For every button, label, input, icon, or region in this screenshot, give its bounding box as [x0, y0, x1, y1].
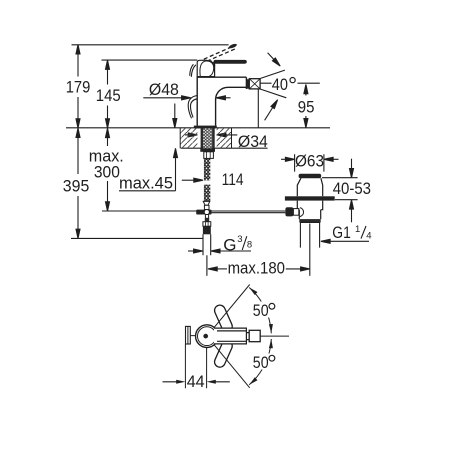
- flexible supply hose lower: [204, 185, 210, 202]
- top view handle lower position: [213, 339, 234, 369]
- reference line bottom of supply (max300 bottom) / pop-up rod upper line: [102, 210, 285, 212]
- top view center dot: [203, 334, 208, 339]
- faucet body outline: [197, 77, 246, 126]
- dimension Ø63 extension lines: [295, 154, 324, 171]
- drain body mid: [299, 210, 320, 219]
- top view pull rod: [186, 326, 191, 344]
- pop-up pull rod behind body: [188, 64, 197, 118]
- svg-text:4: 4: [366, 231, 371, 242]
- drain rod knob: [285, 207, 293, 216]
- handle lever bar: [214, 60, 247, 64]
- reference line deck surface extended: [66, 127, 330, 129]
- svg-text:G: G: [223, 235, 236, 254]
- handle base: [197, 60, 214, 76]
- svg-text:G1: G1: [332, 223, 351, 242]
- 40 degree spray ray upper: [261, 70, 285, 78]
- svg-text:50: 50: [253, 353, 269, 372]
- dimension Ø48 leader left: [143, 97, 182, 99]
- top view spout axis line: [260, 335, 289, 337]
- svg-text:114: 114: [222, 170, 244, 189]
- deck cross-section hatched right of hole: [217, 128, 232, 148]
- dimension max180: [216, 268, 227, 270]
- top view aerator: [249, 330, 260, 341]
- supply pipe ends: [203, 234, 211, 255]
- dimension 44 arrows: [163, 381, 230, 383]
- drain tailpipe: [300, 223, 319, 248]
- flexible supply hose upper: [204, 158, 210, 180]
- svg-text:40-53: 40-53: [333, 179, 371, 198]
- max180 extension line right (drain centerline): [309, 224, 311, 276]
- stub above cross fitting: [204, 205, 209, 209]
- aerator connector dark wedge: [246, 79, 249, 89]
- dimension max45 upper arrow: [174, 104, 176, 128]
- svg-text:3: 3: [237, 234, 242, 245]
- dimension 179: [77, 45, 79, 77]
- drain body upper: [297, 201, 322, 210]
- svg-text:300: 300: [94, 163, 120, 182]
- angle arc lower 50: [249, 339, 271, 385]
- aerator square with cross: [249, 79, 260, 89]
- dimension 395: [77, 128, 79, 174]
- dimension Ø48 arrow right: [216, 97, 230, 99]
- aerator drop line to deck level: [257, 89, 259, 128]
- dimension Ø34 arrow right with leader: [217, 131, 230, 138]
- svg-text:max.45: max.45: [119, 174, 173, 193]
- dimension 44 extension lines: [185, 344, 206, 388]
- hose cone end: [203, 201, 210, 205]
- svg-text:395: 395: [63, 176, 90, 195]
- drain valve seat arc: [300, 208, 304, 217]
- dimension Ø63 arrows: [281, 158, 286, 160]
- handle lifted position dashed: [204, 46, 237, 61]
- 40 degree spray ray lower: [261, 89, 287, 98]
- handle lifted tip blob: [228, 43, 237, 49]
- deck cross-section hatched left of hole: [180, 128, 197, 148]
- dimension G1 1/4 leader: [329, 240, 369, 242]
- faucet threaded shank through deck: [203, 128, 212, 149]
- svg-text:50: 50: [253, 301, 269, 320]
- top view handle upper position: [213, 303, 234, 333]
- reference line bottom of pipe (395 bottom): [71, 237, 203, 239]
- svg-text:95: 95: [298, 97, 315, 116]
- svg-text:max.180: max.180: [228, 258, 285, 277]
- svg-text:8: 8: [247, 240, 252, 251]
- svg-text:179: 179: [66, 78, 91, 97]
- 40 degree arrow lower: [265, 107, 273, 120]
- G3/8 connection nut: [203, 222, 211, 227]
- drain neck: [297, 178, 322, 196]
- dimension 114 leader arrow: [182, 179, 194, 181]
- svg-text:145: 145: [96, 86, 121, 105]
- svg-text:40: 40: [272, 75, 288, 94]
- drain rod stub: [293, 209, 298, 216]
- drain cap: [299, 174, 322, 179]
- 40 degree leader line: [260, 82, 320, 84]
- reference line top of handle rest (145 top): [102, 59, 198, 61]
- dimension max45 lower arrow and leader: [175, 152, 177, 191]
- svg-text:44: 44: [187, 372, 205, 391]
- top view body circle: [196, 325, 219, 348]
- dimension 40-53 reference lines: [322, 178, 358, 200]
- pop-up rod cross fitting: [196, 210, 211, 215]
- dimension max300: [107, 128, 109, 146]
- max180 extension line left (pipe centerline): [206, 255, 208, 275]
- mounting nut below deck: [200, 148, 215, 151]
- svg-text:1: 1: [355, 224, 360, 235]
- angle arc upper 50: [249, 288, 271, 334]
- top view spout: [214, 328, 249, 344]
- dimension 95: [305, 85, 307, 96]
- svg-text:Ø63: Ø63: [295, 152, 324, 171]
- dimension Ø34 arrow left: [184, 131, 197, 138]
- deck edges: [180, 128, 231, 148]
- drain locknut: [299, 219, 320, 222]
- reference line top of lifted handle (179 top): [72, 44, 229, 46]
- deck bottom line extended under Ø34: [181, 147, 268, 149]
- dimension G3/8 arrows: [188, 250, 195, 252]
- pop-up rod lower line: [212, 212, 286, 214]
- svg-text:Ø48: Ø48: [149, 80, 179, 99]
- label 50 degrees lower: [251, 354, 278, 370]
- dimension 40-53 arrows: [351, 159, 353, 169]
- faucet base plate: [194, 126, 217, 129]
- label 50 degrees upper: [251, 302, 278, 318]
- svg-text:Ø34: Ø34: [238, 132, 268, 151]
- dimension 145: [107, 60, 109, 84]
- drain flange seal: [285, 196, 335, 200]
- top view swing ray lower: [212, 342, 250, 388]
- stub below cross fitting: [205, 215, 208, 219]
- 40 degree arrow upper: [268, 53, 277, 63]
- top view swing ray upper: [212, 285, 250, 331]
